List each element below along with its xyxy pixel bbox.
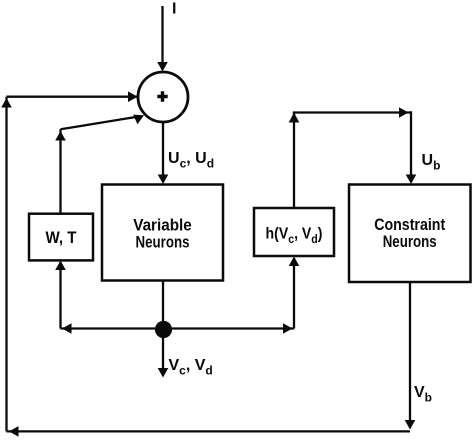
wire: top-left horizontal into summer: [7, 91, 139, 102]
wire: Variable Neurons output down through junction to Vc,Vd: [158, 281, 169, 378]
wire: junction horizontal feedback line (left to W,T riser; right to h riser): [61, 323, 295, 334]
svg-text:Neurons: Neurons: [383, 232, 437, 251]
svg-text:I: I: [172, 0, 176, 17]
block: Constraint Neurons: [349, 185, 471, 283]
wire: riser up into h(Vc,Vd) bottom: [289, 257, 300, 329]
wire: Constraint Neurons output Vb down to bottom bus: [405, 282, 416, 430]
block: h(Vc, Vd): [254, 208, 334, 256]
svg-text:W, T: W, T: [46, 228, 78, 247]
wire: input I vertical into summer: [157, 6, 168, 72]
summing junction (+): [138, 72, 188, 122]
wire: left feedback vertical up the left edge: [1, 97, 12, 432]
junction dot (Vc,Vd node): [155, 321, 172, 338]
wire: W,T output up then diagonal into summer: [55, 115, 144, 214]
block: W, T: [29, 214, 93, 261]
block: Variable Neurons: [102, 185, 223, 281]
wire: riser up into W,T bottom: [55, 261, 66, 329]
wire: bottom feedback bus right-to-left: [7, 426, 411, 437]
wire: h(Vc,Vd) output up, right, down into Constraint Neurons: [289, 107, 417, 208]
svg-text:Neurons: Neurons: [136, 233, 190, 252]
wire: summer output Uc,Ud down into Variable Neurons: [158, 122, 169, 184]
